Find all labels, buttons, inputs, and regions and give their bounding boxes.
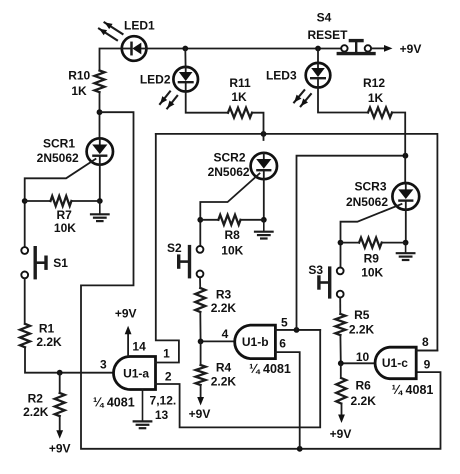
node junction top rail to LED2: [182, 46, 188, 52]
node SCR3 cathode / R9 junction: [403, 240, 409, 246]
switch S2: [197, 246, 204, 253]
svg-text:4: 4: [222, 327, 229, 341]
node R10 bottom junction: [97, 109, 103, 115]
svg-text:R12: R12: [363, 76, 385, 90]
resistor R6: [340, 363, 342, 378]
svg-text:R5: R5: [354, 308, 370, 322]
wire S2 to R3: [199, 277, 201, 288]
svg-text:U1-a: U1-a: [123, 366, 149, 380]
svg-text:8: 8: [422, 335, 429, 349]
wire U1-c pin 8: [416, 350, 437, 352]
svg-text:S4: S4: [317, 11, 332, 25]
node R2 junction: [57, 370, 63, 376]
node R6 junction: [338, 360, 344, 366]
wire R1 to U1-a pin 3: [25, 347, 114, 372]
svg-text:13: 13: [155, 408, 169, 422]
resistor R5: [335, 314, 345, 335]
resistor R11: [228, 108, 252, 118]
svg-text:2N5062: 2N5062: [346, 195, 388, 209]
svg-text:2.2K: 2.2K: [36, 335, 62, 349]
node junction top rail to LED3: [315, 46, 321, 52]
svg-text:2.2K: 2.2K: [349, 323, 375, 337]
svg-text:6: 6: [279, 336, 286, 350]
svg-text:SCR3: SCR3: [354, 179, 386, 193]
svg-text:2N5062: 2N5062: [208, 165, 250, 179]
svg-text:10K: 10K: [361, 265, 383, 279]
wire R10 to SCR1 anode: [99, 92, 101, 138]
svg-text:R4: R4: [216, 361, 232, 375]
wire SCR2 cathode: [263, 179, 265, 220]
ground under SCR1: [99, 201, 101, 214]
ground under SCR3: [405, 243, 407, 254]
resistor R3: [195, 288, 205, 312]
svg-text:R7: R7: [57, 208, 73, 222]
ground under SCR2: [263, 220, 265, 232]
svg-text:S1: S1: [53, 256, 68, 270]
wire R4 to +9V arrow: [200, 385, 202, 397]
svg-text:14: 14: [132, 339, 146, 353]
svg-text:RESET: RESET: [307, 28, 348, 42]
op-amp gate U1-c (1/4 4081): [375, 347, 416, 379]
thyristor SCR1 2N5062: [87, 138, 113, 164]
svg-text:2.2K: 2.2K: [351, 394, 377, 408]
svg-text:¼ 4081: ¼ 4081: [93, 396, 135, 410]
node SCR1 cathode / R7 junction: [97, 198, 103, 204]
wire junction to long left bus down to bottom rail: [81, 112, 441, 449]
svg-text:+9V: +9V: [189, 407, 211, 421]
wire LED3 branch: [317, 49, 319, 64]
resistor R4: [200, 341, 202, 365]
op-amp gate U1-b (1/4 4081): [235, 325, 276, 359]
svg-text:S2: S2: [167, 241, 182, 255]
LED LED3: [306, 63, 331, 88]
svg-text:SCR2: SCR2: [213, 151, 245, 165]
svg-text:SCR1: SCR1: [43, 137, 75, 151]
wire SCR2 gate: [200, 174, 259, 246]
pin 14 wire +9V arrow: [127, 334, 129, 357]
wire R5 to U1-c pin 10: [340, 335, 373, 363]
LED LED1: [122, 36, 147, 61]
wire pin5 junction up to SCR3 anode line: [297, 156, 406, 330]
wire LED3 to R12: [318, 88, 368, 113]
resistor R12: [368, 108, 392, 118]
svg-text:¼ 4081: ¼ 4081: [392, 383, 434, 397]
wire U1-a pin 2 to U1-b input bus: [156, 330, 321, 428]
svg-text:R8: R8: [225, 228, 241, 242]
wire S1 to R1: [24, 278, 26, 324]
svg-text:R10: R10: [68, 68, 90, 82]
node pin5 junction: [294, 327, 300, 333]
svg-text:9: 9: [424, 358, 431, 372]
wire S3 to R5: [339, 298, 341, 314]
svg-text:10K: 10K: [221, 244, 243, 258]
wire SCR2 anode bus (y=134) to U1-c pin 8: [156, 134, 438, 351]
wire LED2 branch: [184, 49, 186, 68]
svg-text:2: 2: [165, 370, 172, 384]
node SCR2 cathode / R8 junction: [261, 217, 267, 223]
wire R3 to U1-b pin 4: [200, 312, 233, 341]
svg-text:2.2K: 2.2K: [23, 405, 49, 419]
op-amp gate U1-a (1/4 4081): [114, 357, 156, 390]
wire R12 to SCR3 anode: [392, 113, 405, 184]
svg-text:U1-c: U1-c: [382, 356, 408, 370]
resistor R1: [20, 324, 30, 348]
svg-text:+9V: +9V: [49, 441, 71, 455]
node R7 left junction: [22, 198, 28, 204]
resistor R10: [95, 71, 105, 93]
wire SCR1 cathode to ground: [99, 165, 101, 201]
svg-text:¼ 4081: ¼ 4081: [249, 362, 291, 376]
svg-text:U1-b: U1-b: [242, 335, 269, 349]
ground under U1-a pin 7: [142, 390, 144, 422]
node R9 left junction: [338, 240, 344, 246]
svg-text:1: 1: [163, 347, 170, 361]
svg-text:7,12.: 7,12.: [150, 394, 177, 408]
svg-text:LED3: LED3: [266, 68, 297, 82]
svg-text:R9: R9: [364, 252, 380, 266]
node bottom rail junction: [297, 446, 303, 452]
svg-text:R3: R3: [216, 287, 232, 301]
resistor R8: [200, 219, 218, 221]
svg-text:1K: 1K: [231, 90, 247, 104]
svg-text:2.2K: 2.2K: [211, 374, 237, 388]
switch S1: [21, 247, 28, 254]
svg-text:R2: R2: [28, 392, 44, 406]
svg-text:+9V: +9V: [400, 42, 422, 56]
resistor R2: [59, 373, 61, 393]
svg-text:R6: R6: [356, 378, 372, 392]
svg-text:10: 10: [356, 350, 370, 364]
wire R2 to +9V arrow: [59, 416, 61, 430]
wire U1-b pin 6 down to bottom rail: [275, 352, 299, 449]
svg-text:3: 3: [100, 357, 107, 371]
wire U1-a pin 1 loop from SCR2 bus: [156, 134, 179, 363]
svg-text:LED1: LED1: [124, 18, 155, 32]
resistor R9: [341, 242, 360, 244]
svg-text:+9V: +9V: [330, 427, 352, 441]
thyristor SCR3 2N5062: [392, 183, 419, 210]
svg-text:R1: R1: [39, 321, 55, 335]
svg-text:LED2: LED2: [140, 72, 171, 86]
svg-text:10K: 10K: [54, 221, 76, 235]
wire LED2 to R11: [186, 92, 228, 113]
LED3 light arrows: [294, 90, 304, 102]
switch S3: [337, 268, 344, 275]
svg-text:+9V: +9V: [115, 307, 137, 321]
svg-text:2.2K: 2.2K: [211, 301, 237, 315]
node R4 junction: [198, 339, 204, 345]
svg-text:S3: S3: [308, 263, 323, 277]
svg-text:R11: R11: [229, 76, 251, 90]
wire R6 to +9V arrow: [341, 404, 343, 415]
thyristor SCR2 2N5062: [251, 153, 277, 179]
wire SCR1 gate: [25, 159, 96, 247]
svg-text:2N5062: 2N5062: [37, 151, 79, 165]
LED1 light arrows: [105, 22, 123, 34]
resistor R7: [25, 200, 51, 202]
LED2 light arrows: [160, 92, 170, 105]
switch S4 reset pushbutton: [338, 41, 374, 54]
wire R11 to SCR2 anode: [252, 113, 264, 140]
wire U1-b pin 5: [275, 329, 320, 331]
wire top +9V rail: [100, 49, 122, 71]
node R8 left junction: [197, 217, 203, 223]
svg-text:5: 5: [281, 316, 288, 330]
node SCR3 anode junction: [403, 153, 409, 159]
wire SCR3 gate: [341, 204, 402, 268]
wire SCR3 cathode: [405, 210, 407, 243]
LED LED2: [173, 67, 198, 92]
svg-text:1K: 1K: [368, 91, 384, 105]
svg-text:1K: 1K: [71, 84, 87, 98]
wire S4 to +9V with arrow: [371, 47, 385, 49]
node SCR2 anode junction: [261, 131, 267, 137]
